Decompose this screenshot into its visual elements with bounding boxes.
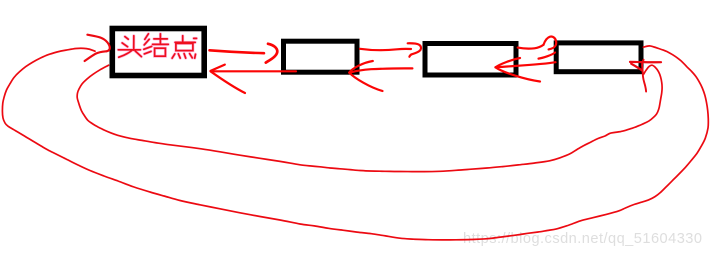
outer loop arrowhead upper barb <box>87 35 109 52</box>
label 头结点 char 结 <box>144 34 169 56</box>
arrow node3->node2 arrowhead upper barb <box>349 61 373 73</box>
arrow node2->head arrowhead long lower barb <box>211 71 246 93</box>
arrow into node4 lower barb <box>631 64 642 71</box>
arrow node3->node2 (prev pointer) shaft <box>351 68 413 72</box>
node box 3 <box>425 44 516 76</box>
arrow node4->node3 arrowhead long lower barb <box>496 67 541 81</box>
node box 4 <box>556 43 641 72</box>
arrow node3->node2 arrowhead long lower barb <box>349 73 382 91</box>
node box 2 <box>284 41 358 72</box>
arrow node2->node3 (next pointer) shaft <box>360 49 411 50</box>
arrow node4->node3 (prev pointer) shaft <box>497 62 556 67</box>
arrow node3->node4 (next pointer) shaft <box>518 45 544 49</box>
arrow node4->node3 arrowhead upper barb <box>496 58 521 67</box>
label underlay char 头 <box>118 36 141 58</box>
arrow node3->node4 looped arrowhead over box4 corner <box>544 37 557 50</box>
inner loop: head prev wraps to node4, around bottom <box>77 65 662 171</box>
svg-text:https://blog.csdn.net/qq_51604: https://blog.csdn.net/qq_51604330 <box>463 231 702 247</box>
arrow node2->head arrowhead upper barb <box>211 65 225 71</box>
node box 1 (head node) <box>112 29 204 76</box>
arrow node2->head (prev pointer) shaft <box>212 70 296 72</box>
label 头结点 char 点 <box>172 36 196 59</box>
arrow into node4 upper barb crossing border <box>642 60 646 92</box>
outer loop: node4 next wraps to head node, around bottom <box>2 46 708 240</box>
label underlay char 结 <box>144 34 169 56</box>
outer loop arrowhead lower barb <box>85 51 106 61</box>
arrow into node4 right edge (prev pointer tip) shaft <box>630 61 661 64</box>
arrow node2->node3 curled arrowhead <box>408 43 421 56</box>
arrow head->node2 curled arrowhead <box>266 44 278 63</box>
arrow head->node2 (next pointer) shaft <box>210 50 265 53</box>
label underlay char 点 <box>172 36 196 59</box>
label 头结点 char 头 <box>118 36 141 58</box>
arrow node3->node4 arrowhead tip barb <box>539 53 556 59</box>
